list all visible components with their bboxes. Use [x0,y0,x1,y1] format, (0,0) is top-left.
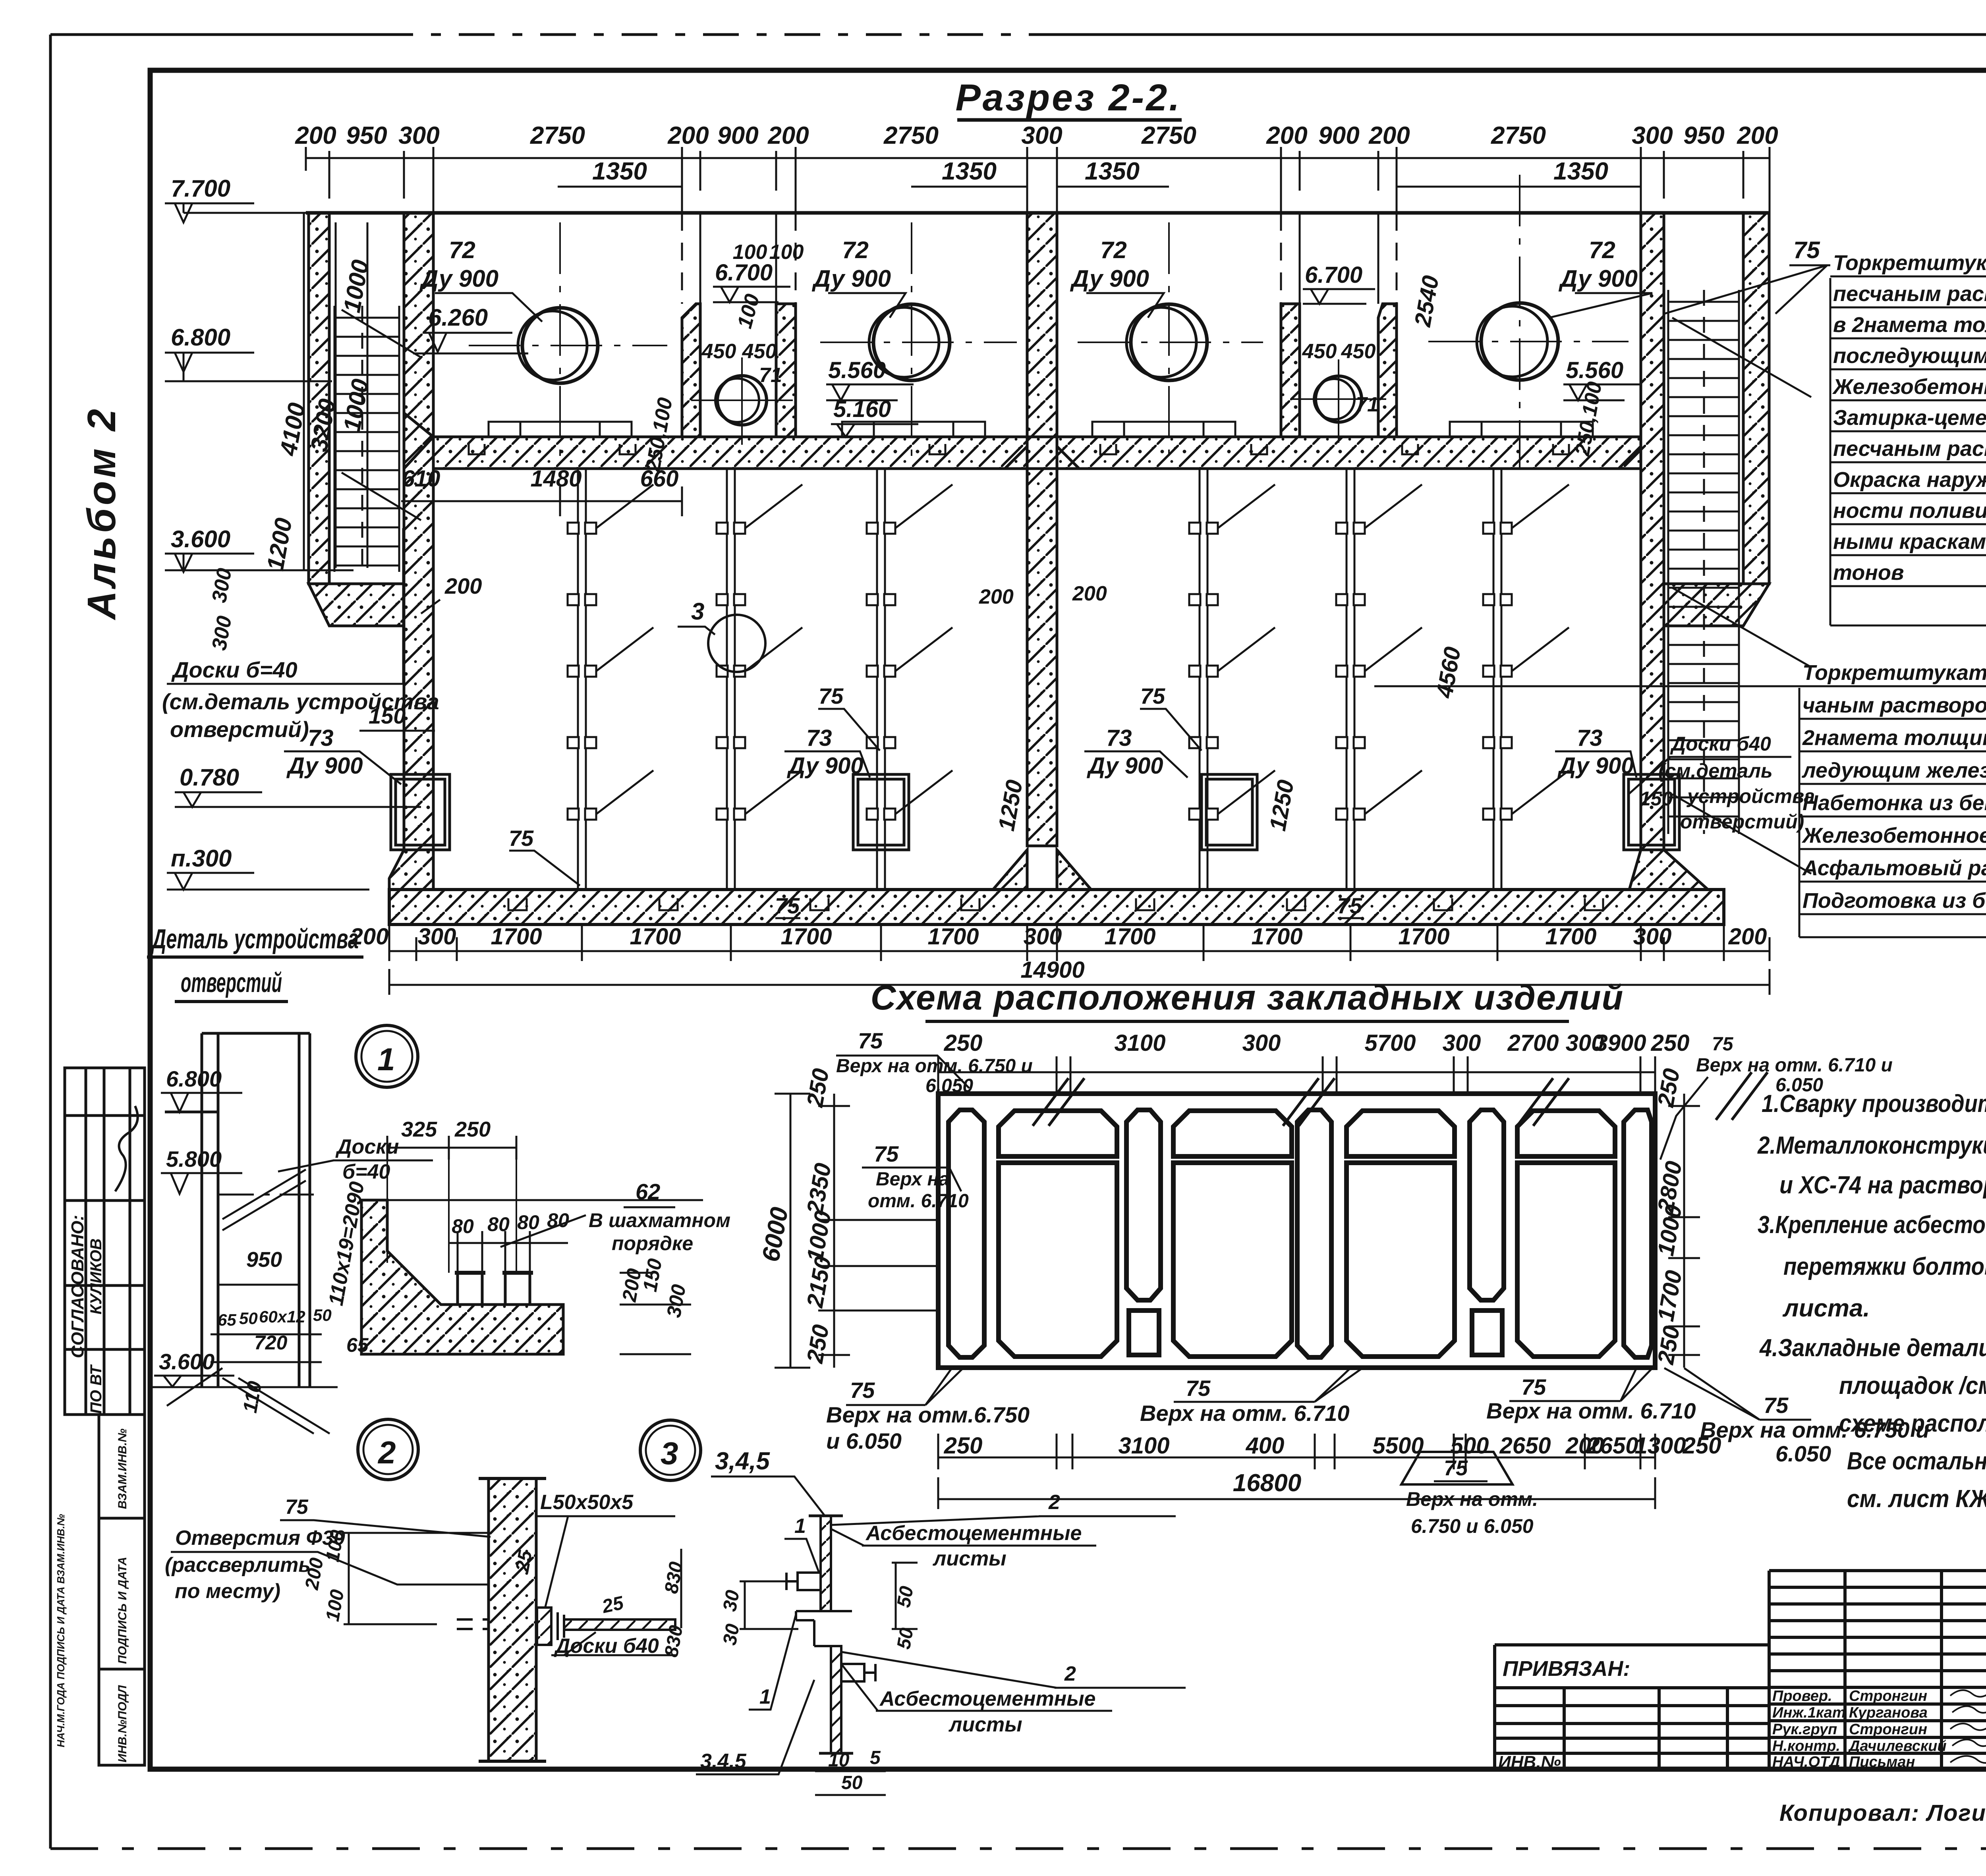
svg-text:71: 71 [1356,393,1379,416]
svg-text:тонов: тонов [1833,561,1904,585]
svg-text:300: 300 [1443,1030,1481,1056]
block B [1801,661,1986,913]
hatched corner of detail 1 [361,1200,563,1354]
svg-text:3.600: 3.600 [171,526,230,552]
svg-text:300: 300 [398,122,439,149]
svg-text:3900: 3900 [1595,1030,1646,1056]
svg-text:Окраска наружной поверх-: Окраска наружной поверх- [1833,468,1986,492]
svg-text:Железобетонное днище - 300: Железобетонное днище - 300 [1801,824,1986,847]
svg-text:отверстий): отверстий) [170,717,309,742]
svg-text:1300: 1300 [1634,1433,1686,1459]
svg-text:ИНВ.№: ИНВ.№ [1498,1752,1561,1772]
svg-text:75: 75 [1140,683,1165,708]
svg-text:610: 610 [402,466,440,492]
5.560 / 5.160 / 6.700 marks [715,260,1623,422]
svg-text:72: 72 [1589,237,1615,263]
ПРИВЯЗАН table [1495,1645,1769,1769]
svg-text:2650: 2650 [1499,1433,1551,1459]
svg-text:80: 80 [452,1215,474,1237]
svg-text:1350: 1350 [1085,158,1140,185]
svg-text:450: 450 [701,340,736,363]
svg-text:7.700: 7.700 [171,175,230,202]
filter plates [578,469,1501,890]
svg-text:Стронгин: Стронгин [1849,1688,1927,1704]
svg-text:Письман: Письман [1849,1754,1915,1770]
svg-text:2750: 2750 [883,122,939,149]
top dimension chain [306,147,1770,213]
circle centerlines [469,175,1629,469]
svg-text:Набетонка из бетона В3,5по укл: Набетонка из бетона В3,5по уклану [1802,791,1986,815]
svg-text:6.050: 6.050 [1775,1441,1831,1466]
svg-text:4.Закладные детали для креплен: 4.Закладные детали для крепления металли… [1759,1334,1986,1362]
plates [809,1516,853,1753]
svg-text:L50х50х5: L50х50х5 [540,1491,634,1514]
svg-text:5.560: 5.560 [1566,357,1623,383]
svg-text:1700: 1700 [630,924,681,950]
svg-text:Все остальные закладные детали: Все остальные закладные детали [1847,1448,1986,1475]
bottom labels [826,1374,1929,1466]
level marks & labels left [171,175,488,872]
gallery 2 small circle 71 [717,376,767,425]
svg-text:1350: 1350 [1553,158,1608,185]
svg-text:75: 75 [858,1028,883,1053]
svg-text:Асбестоцементные: Асбестоцементные [879,1687,1095,1710]
svg-text:100: 100 [769,241,804,264]
svg-text:75: 75 [775,893,800,918]
detail 2 [358,1419,418,1480]
svg-text:75: 75 [1521,1374,1546,1399]
svg-text:и ХС-74 на растворителе Р-4 по: и ХС-74 на растворителе Р-4 по грунту ХС… [1779,1172,1986,1199]
right text blocks [1374,237,1986,937]
svg-text:300: 300 [1021,122,1062,149]
svg-text:Схема расположения закладных и: Схема расположения закладных изделий [871,978,1624,1017]
svg-text:и 6.050: и 6.050 [826,1428,902,1453]
svg-text:3,4,5: 3,4,5 [715,1448,770,1475]
narrow strips [949,1110,1652,1357]
svg-text:площадок /см.листы км 7,км-8): площадок /см.листы км 7,км-8) показаны н… [1839,1372,1986,1399]
svg-text:песчаным раствором состава1:2: песчаным раствором состава1:2 [1833,282,1986,306]
svg-text:Верх на: Верх на [876,1169,949,1190]
svg-text:73: 73 [806,725,832,751]
svg-text:1700: 1700 [1104,924,1155,950]
svg-text:3100: 3100 [1114,1030,1165,1056]
svg-text:5.800: 5.800 [166,1146,222,1172]
schema [757,978,1930,1537]
svg-text:50: 50 [313,1306,332,1324]
svg-text:перетяжки болтов для обеспечен: перетяжки болтов для обеспечения вложных… [1783,1253,1986,1280]
titles [151,923,359,998]
posts [458,1273,530,1305]
left margin strip [55,406,145,1765]
tank bottom slab [389,890,1724,924]
left 75 labels [858,1028,899,1166]
svg-text:72: 72 [1100,237,1127,263]
610 1480 660 dims [402,466,679,492]
svg-text:71: 71 [759,364,782,387]
svg-text:1: 1 [794,1515,806,1538]
svg-text:Верх на отм. 6.710: Верх на отм. 6.710 [1140,1401,1350,1426]
svg-text:НАЧ.ОТД: НАЧ.ОТД [1772,1754,1840,1770]
svg-text:2намета толщиной 25мм. с пос-: 2намета толщиной 25мм. с пос- [1802,726,1986,750]
svg-text:75: 75 [1444,1456,1468,1480]
svg-text:(рассверлить: (рассверлить [165,1554,311,1577]
6.800 level line [165,380,332,382]
svg-text:5700: 5700 [1364,1030,1416,1056]
approval table upper [65,1068,145,1415]
svg-text:75: 75 [1764,1393,1789,1418]
svg-text:устройства: устройства [1686,785,1815,807]
svg-text:3,4,5: 3,4,5 [700,1750,747,1773]
svg-text:200: 200 [1728,924,1767,950]
svg-text:Стронгин: Стронгин [1849,1721,1927,1738]
svg-text:30: 30 [719,1622,744,1647]
svg-text:3100: 3100 [1118,1433,1169,1459]
labels detail2 [165,1491,659,1658]
svg-text:25: 25 [512,1548,536,1574]
right dim chain [1668,1094,1700,1368]
svg-text:листа.: листа. [1782,1295,1870,1322]
svg-text:200: 200 [767,122,809,149]
svg-text:по месту): по месту) [175,1580,280,1603]
top dim chain [938,1056,1655,1094]
svg-text:СОГЛАСОВАНО:: СОГЛАСОВАНО: [68,1215,87,1358]
Доски б40 right label [1640,733,1815,833]
detail 3 [640,1420,701,1480]
svg-text:450: 450 [742,340,777,363]
svg-text:80: 80 [517,1211,539,1233]
svg-text:Ду 900: Ду 900 [419,265,498,292]
svg-text:б=40: б=40 [342,1160,390,1183]
svg-text:6.050: 6.050 [925,1075,973,1096]
title block [1495,1537,1986,1843]
approval table lower [99,1415,145,1765]
svg-text:КУЛИКОВ: КУЛИКОВ [87,1239,105,1314]
left tall table [1769,1571,1986,1769]
svg-text:300: 300 [1632,122,1673,149]
svg-text:6.750 и 6.050: 6.750 и 6.050 [1411,1515,1534,1537]
svg-text:300: 300 [418,924,456,950]
wide blocks: top small + big [999,1111,1615,1357]
svg-text:2: 2 [377,1435,396,1470]
section 2-2 [162,77,1811,995]
svg-text:65: 65 [218,1310,236,1329]
svg-text:950: 950 [346,122,387,149]
svg-text:75: 75 [285,1496,309,1519]
svg-text:3: 3 [691,598,704,625]
svg-text:450: 450 [1341,340,1376,363]
svg-text:Ду 900: Ду 900 [1070,265,1149,292]
svg-text:150: 150 [1640,787,1673,810]
svg-text:500: 500 [1451,1433,1489,1459]
svg-text:Ду 900: Ду 900 [286,753,363,779]
svg-text:1700: 1700 [927,924,979,950]
svg-text:песчаным раствором: песчаным раствором [1833,437,1986,461]
signatures [1950,1686,1986,1763]
svg-text:Доски б40: Доски б40 [1670,733,1771,755]
svg-text:50: 50 [239,1309,258,1328]
svg-text:75: 75 [1712,1034,1734,1055]
svg-text:В шахматном: В шахматном [589,1209,730,1231]
svg-text:75: 75 [1793,237,1820,263]
svg-text:200: 200 [979,585,1014,608]
svg-text:75: 75 [819,683,844,708]
svg-text:2650: 2650 [1586,1433,1638,1459]
svg-text:Инж.1кат: Инж.1кат [1772,1704,1846,1721]
svg-text:950: 950 [1683,122,1724,149]
svg-text:листы: листы [932,1547,1007,1570]
svg-text:Верх на отм.: Верх на отм. [1406,1488,1538,1510]
block A [1832,251,1986,585]
svg-text:Отверстия Ф30: Отверстия Ф30 [175,1527,345,1550]
svg-text:Доски б40: Доски б40 [554,1635,659,1658]
Доски б=40 label [335,1135,399,1183]
svg-text:50: 50 [841,1772,863,1793]
svg-text:Верх на отм. 6.710 и: Верх на отм. 6.710 и [1696,1055,1893,1076]
detail 1 [356,1025,418,1087]
73 Ду900 labels [286,725,1634,779]
svg-text:900: 900 [1318,122,1359,149]
center wall [993,213,1091,890]
svg-text:200: 200 [444,573,482,598]
svg-text:ности поливинилацетат-: ности поливинилацетат- [1833,499,1986,523]
6.800 5.800 3.600 marks [159,1066,222,1374]
svg-text:450: 450 [1302,340,1337,363]
trapezoid callout bottom center [1401,1452,1513,1484]
svg-text:Копировал: Логинова: Копировал: Логинова [1779,1800,1986,1826]
bottom dim chains [389,925,1770,995]
svg-text:Верх на отм. 6.750 и: Верх на отм. 6.750 и [836,1056,1033,1077]
svg-text:Торкретштукатурка цементно-: Торкретштукатурка цементно- [1833,251,1986,275]
72 Ду900 labels [419,237,1638,292]
svg-text:Разрез 2-2.: Разрез 2-2. [955,77,1181,119]
svg-text:в 2намета толщиной 25мм. с: в 2намета толщиной 25мм. с [1833,313,1986,337]
svg-text:Деталь устройства: Деталь устройства [151,923,359,954]
svg-text:150: 150 [369,703,406,728]
svg-text:75: 75 [1186,1376,1211,1401]
sleeves [391,774,1679,850]
svg-text:1350: 1350 [592,158,647,185]
svg-text:Ду 900: Ду 900 [1557,753,1634,779]
upper floor slab [404,413,1641,469]
svg-text:6.800: 6.800 [171,324,230,351]
right outer wall W7 [1664,213,1769,626]
svg-text:30: 30 [719,1588,744,1613]
svg-text:ВЗАМ.ИНВ.№: ВЗАМ.ИНВ.№ [116,1428,129,1509]
svg-text:100: 100 [733,241,767,264]
svg-text:ИНВ.№ПОДЛ: ИНВ.№ПОДЛ [116,1685,129,1762]
svg-text:300: 300 [1024,924,1062,950]
svg-text:1350: 1350 [942,158,997,185]
svg-text:2750: 2750 [1141,122,1196,149]
svg-text:1480: 1480 [530,466,582,492]
svg-text:75: 75 [850,1378,875,1403]
svg-text:50: 50 [893,1585,918,1609]
signature squiggle [115,1106,138,1191]
svg-text:3: 3 [661,1436,678,1471]
svg-text:1: 1 [759,1685,771,1708]
right wall W6 [1619,213,1708,890]
svg-text:1700: 1700 [780,924,832,950]
svg-text:200: 200 [1737,122,1778,149]
svg-text:см. лист КЖ10.: см. лист КЖ10. [1847,1485,1986,1513]
svg-text:200: 200 [1072,582,1107,605]
svg-text:950: 950 [246,1248,282,1272]
450 450 + 71 + 100 labels galleries [701,241,1379,416]
svg-text:2750: 2750 [1491,122,1546,149]
svg-text:75: 75 [1337,893,1362,918]
svg-text:250: 250 [1683,1433,1721,1459]
svg-text:72: 72 [842,237,869,263]
svg-text:250: 250 [944,1030,983,1056]
svg-text:2.Металлоконструкции окрасить: 2.Металлоконструкции окрасить перхлорвин… [1757,1132,1986,1159]
svg-text:листы: листы [948,1713,1022,1736]
svg-text:900: 900 [717,122,758,149]
top slab [306,211,1770,215]
svg-text:300: 300 [1242,1030,1281,1056]
svg-text:1700: 1700 [491,924,542,950]
svg-text:75: 75 [509,826,534,851]
svg-text:3.Крепление асбестоцементных л: 3.Крепление асбестоцементных листов выпо… [1758,1211,1986,1239]
svg-text:Ду 900: Ду 900 [1086,753,1163,779]
svg-text:200: 200 [1266,122,1307,149]
diagonal hatch marks on top band [1033,1072,1768,1126]
svg-text:1.Сварку производить электрода: 1.Сварку производить электродами Э 42 по… [1762,1090,1986,1117]
svg-text:последующим железнением: последующим железнением [1833,344,1986,368]
svg-text:Асбестоцементные: Асбестоцементные [865,1522,1082,1545]
svg-text:1700: 1700 [1251,924,1302,950]
svg-text:Альбом 2: Альбом 2 [79,406,124,621]
svg-text:325: 325 [401,1117,437,1141]
svg-text:Доски б=40: Доски б=40 [171,657,298,682]
svg-text:5.560: 5.560 [828,357,886,383]
svg-text:3.600: 3.600 [159,1349,214,1374]
labels detail3 [700,1491,1095,1773]
svg-text:Рук.груп: Рук.груп [1772,1721,1837,1738]
svg-text:Н.контр.: Н.контр. [1772,1738,1840,1754]
svg-text:250: 250 [1651,1030,1690,1056]
svg-text:73: 73 [1577,725,1603,751]
svg-text:16800: 16800 [1233,1469,1301,1497]
svg-text:отверстий): отверстий) [1680,811,1804,833]
svg-text:250: 250 [944,1433,983,1459]
svg-text:6.260: 6.260 [428,304,488,331]
svg-text:200: 200 [1368,122,1410,149]
bottom dim chain [938,1434,1655,1469]
svg-text:73: 73 [308,725,334,751]
svg-text:порядке: порядке [612,1232,693,1255]
svg-text:6.700: 6.700 [1305,262,1362,288]
svg-text:75: 75 [874,1141,899,1166]
svg-text:Ду 900: Ду 900 [786,753,863,779]
svg-text:Торкретштукатурка цементнопес-: Торкретштукатурка цементнопес- [1802,661,1986,685]
svg-text:отверстий: отверстий [181,967,282,998]
svg-text:отм. 6.710: отм. 6.710 [868,1191,969,1212]
svg-text:Железобетонная стена 300мм.: Железобетонная стена 300мм. [1832,375,1986,399]
svg-text:(см.деталь: (см.деталь [1658,760,1773,782]
outer rect [938,1094,1655,1368]
svg-text:схеме расположения закладных и: схеме расположения закладных изделий, [1839,1410,1986,1437]
svg-text:Ду 900: Ду 900 [811,265,891,292]
left outer wall hatched [309,213,433,890]
svg-text:Подготовка из бетона В3,5-100: Подготовка из бетона В3,5-100 [1802,889,1986,913]
svg-text:5500: 5500 [1372,1433,1424,1459]
svg-text:ными красками светлых: ными красками светлых [1833,530,1986,554]
svg-text:1700: 1700 [1545,924,1596,950]
svg-text:Курганова: Курганова [1849,1704,1928,1721]
Z bracket + bolts [786,1573,875,1681]
svg-text:Затирка-цементно-: Затирка-цементно- [1833,406,1986,430]
svg-text:ПОДПИСЬ И ДАТА: ПОДПИСЬ И ДАТА [116,1557,129,1664]
svg-text:ПО ВТ: ПО ВТ [87,1364,105,1414]
svg-text:Дачилевский: Дачилевский [1848,1738,1947,1754]
svg-text:73: 73 [1106,725,1132,751]
svg-text:300: 300 [1633,924,1672,950]
svg-text:Асфальтовый раствор - 8: Асфальтовый раствор - 8 [1802,856,1986,880]
svg-text:2: 2 [1048,1491,1060,1514]
left dim chain [775,1094,850,1368]
svg-text:0.780: 0.780 [180,764,239,791]
svg-text:1: 1 [377,1042,395,1077]
svg-text:ПРИВЯЗАН:: ПРИВЯЗАН: [1503,1657,1630,1681]
svg-text:200: 200 [295,122,336,149]
details [147,923,1186,1795]
325 250 dims [401,1117,491,1141]
notes [1757,1090,1986,1513]
svg-text:10: 10 [828,1750,850,1771]
svg-text:Ду 900: Ду 900 [1558,265,1638,292]
svg-text:Провер.: Провер. [1772,1688,1832,1704]
svg-text:400: 400 [1246,1433,1285,1459]
svg-text:72: 72 [449,237,475,263]
svg-text:6.800: 6.800 [166,1066,222,1091]
svg-text:250: 250 [454,1117,491,1141]
bolt through wall [457,1608,675,1645]
ladder gallery 1 [334,306,421,572]
svg-text:5: 5 [870,1747,881,1768]
svg-text:1700: 1700 [1398,924,1449,950]
svg-text:чаным раствором состава 1:2 в: чаным раствором состава 1:2 в [1802,693,1986,717]
detail circle 3 marker in tank [708,615,765,672]
svg-text:НАЧ.М.ГОДА ПОДПИСЬ И ДАТА ВЗАМ: НАЧ.М.ГОДА ПОДПИСЬ И ДАТА ВЗАМ.ИНВ.№ [55,1514,67,1747]
svg-text:ледующим железнением.: ледующим железнением. [1801,759,1986,782]
big circles Ду900 [518,303,1558,383]
platform small marks on floor [489,422,1593,437]
svg-text:п.300: п.300 [171,845,232,872]
right gallery ladder [1668,290,1811,874]
misc labels inside tank [509,683,1362,918]
svg-text:2: 2 [1064,1662,1076,1685]
svg-text:80: 80 [487,1213,510,1235]
80 80 80 80 dims [452,1209,569,1237]
svg-text:200: 200 [667,122,709,149]
Доски б=40 left label [162,657,439,742]
1350 dims [558,186,1641,188]
gallery 2 (900) walls [682,304,796,437]
gallery 3 (900) walls [1281,304,1397,437]
svg-text:2700: 2700 [1507,1030,1559,1056]
svg-text:2750: 2750 [530,122,585,149]
